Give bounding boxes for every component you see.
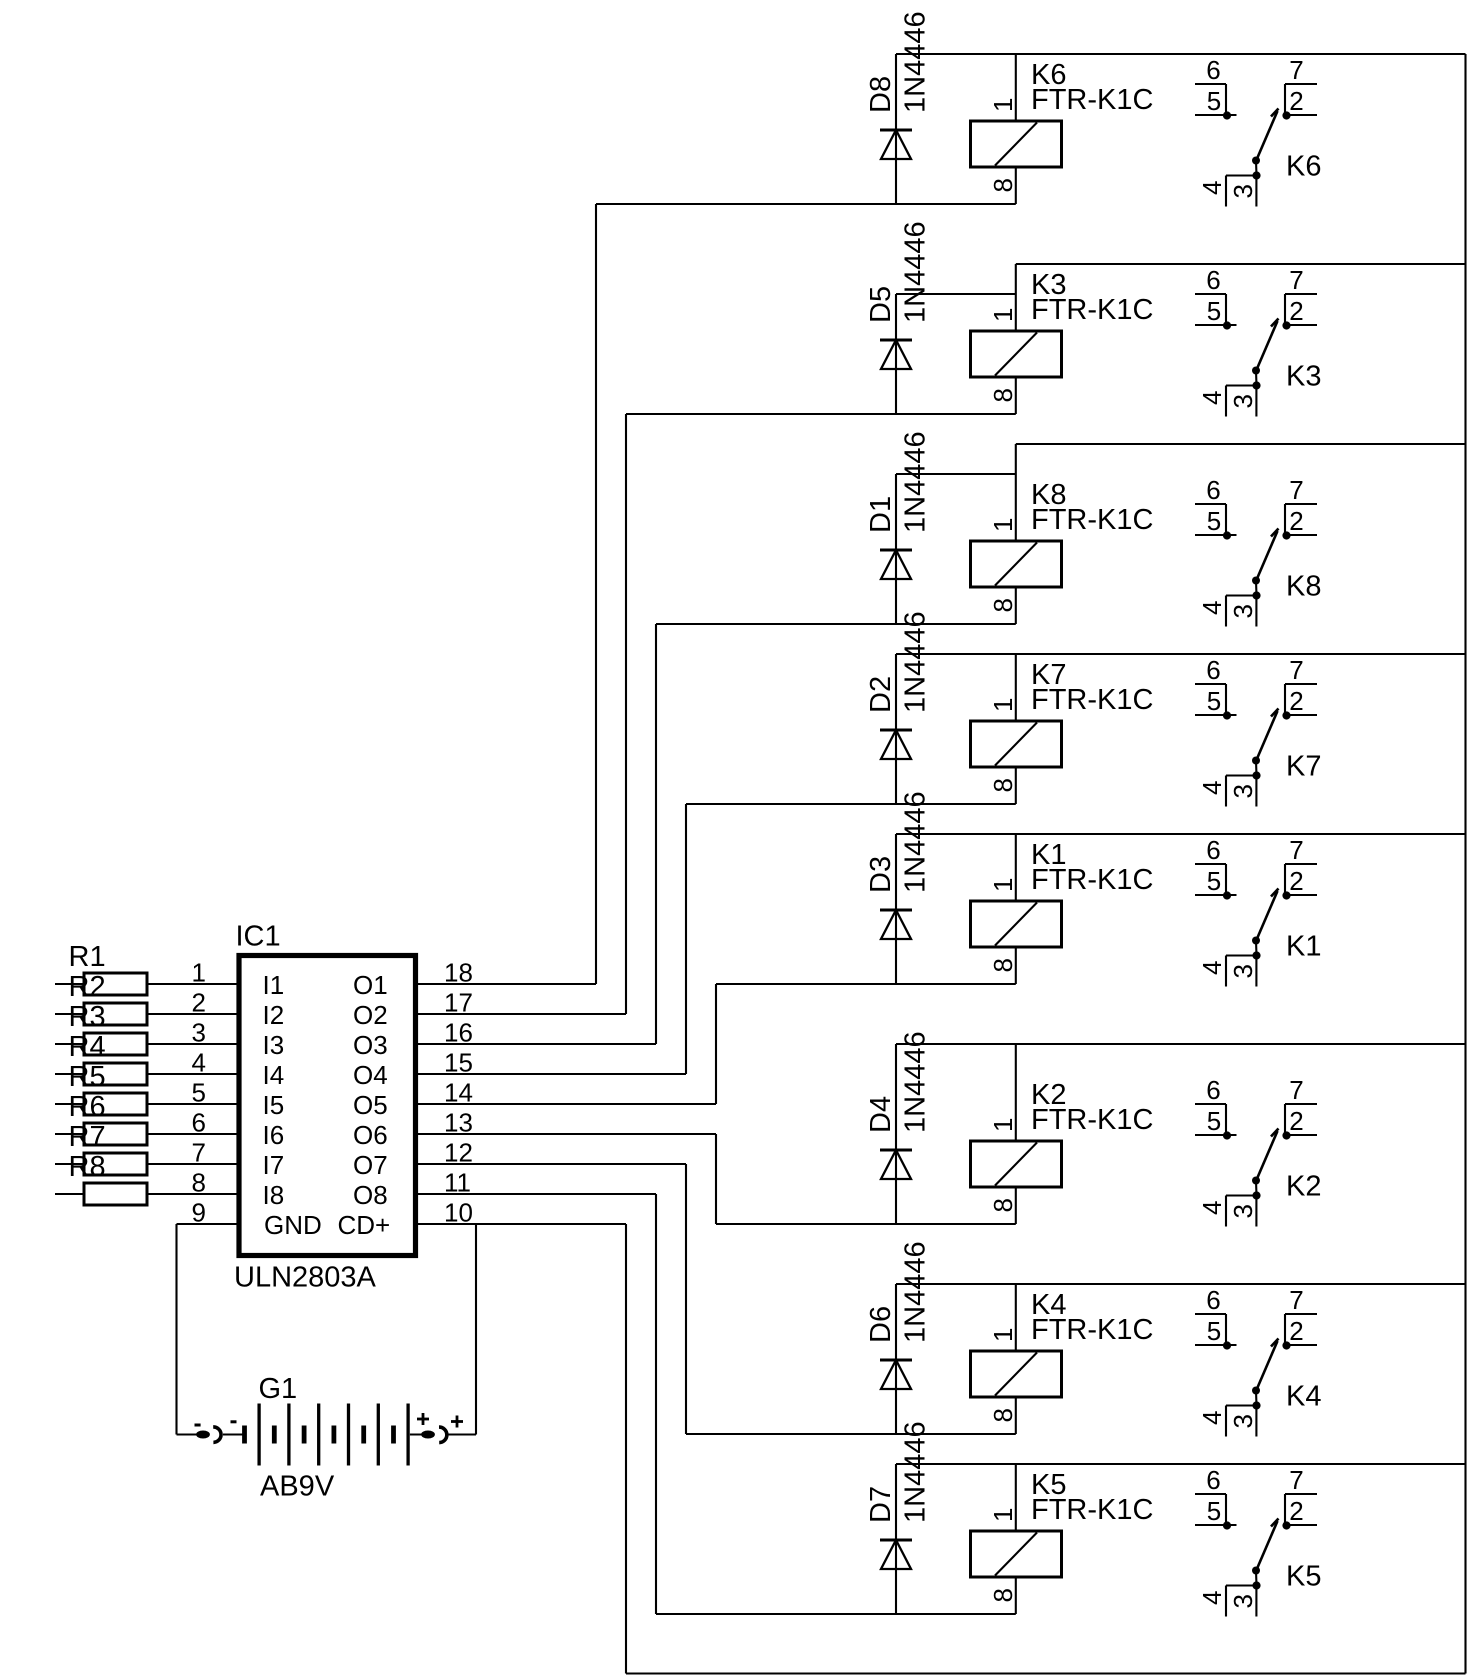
svg-text:4: 4 (1197, 781, 1227, 795)
svg-text:6: 6 (1206, 475, 1220, 505)
svg-text:8: 8 (988, 388, 1018, 402)
svg-text:O8: O8 (353, 1180, 388, 1210)
svg-text:2: 2 (1289, 686, 1303, 716)
svg-text:6: 6 (1206, 1075, 1220, 1105)
svg-text:8: 8 (988, 778, 1018, 792)
svg-text:D1: D1 (865, 496, 897, 533)
svg-text:R6: R6 (69, 1091, 106, 1123)
svg-text:7: 7 (1289, 55, 1303, 85)
svg-text:I2: I2 (263, 1000, 285, 1030)
svg-text:5: 5 (1207, 1316, 1221, 1346)
svg-text:1N4446: 1N4446 (900, 791, 932, 893)
svg-text:13: 13 (444, 1108, 473, 1138)
svg-text:O6: O6 (353, 1120, 388, 1150)
svg-text:FTR-K1C: FTR-K1C (1031, 1104, 1153, 1136)
svg-text:K4: K4 (1286, 1381, 1321, 1413)
svg-text:D5: D5 (865, 286, 897, 323)
svg-text:GND: GND (264, 1210, 322, 1240)
svg-text:1: 1 (988, 518, 1018, 532)
svg-text:8: 8 (988, 958, 1018, 972)
svg-text:4: 4 (1197, 1201, 1227, 1215)
svg-text:6: 6 (1206, 655, 1220, 685)
svg-text:ULN2803A: ULN2803A (234, 1262, 377, 1294)
svg-text:CD+: CD+ (338, 1210, 391, 1240)
svg-text:7: 7 (1289, 475, 1303, 505)
svg-text:5: 5 (1207, 866, 1221, 896)
svg-text:1: 1 (988, 98, 1018, 112)
svg-text:7: 7 (1289, 1075, 1303, 1105)
svg-text:2: 2 (1289, 1496, 1303, 1526)
svg-text:1: 1 (988, 878, 1018, 892)
svg-text:I4: I4 (263, 1060, 285, 1090)
svg-text:D2: D2 (865, 676, 897, 713)
svg-text:7: 7 (1289, 1465, 1303, 1495)
svg-text:4: 4 (1197, 601, 1227, 615)
svg-text:4: 4 (192, 1048, 206, 1078)
svg-text:3: 3 (1228, 784, 1258, 798)
svg-text:1N4446: 1N4446 (900, 611, 932, 713)
svg-text:3: 3 (1228, 1204, 1258, 1218)
svg-text:FTR-K1C: FTR-K1C (1031, 864, 1153, 896)
svg-text:3: 3 (1228, 604, 1258, 618)
svg-text:7: 7 (1289, 655, 1303, 685)
svg-text:6: 6 (1206, 1285, 1220, 1315)
svg-text:G1: G1 (259, 1373, 298, 1405)
svg-text:R2: R2 (69, 971, 106, 1003)
svg-text:O2: O2 (353, 1000, 388, 1030)
svg-text:FTR-K1C: FTR-K1C (1031, 684, 1153, 716)
svg-text:R8: R8 (69, 1151, 106, 1183)
svg-text:1: 1 (988, 308, 1018, 322)
svg-text:4: 4 (1197, 391, 1227, 405)
svg-text:K8: K8 (1286, 571, 1321, 603)
svg-text:1N4446: 1N4446 (900, 1031, 932, 1133)
svg-text:15: 15 (444, 1048, 473, 1078)
svg-text:5: 5 (1207, 1496, 1221, 1526)
svg-text:11: 11 (444, 1168, 471, 1198)
svg-text:IC1: IC1 (236, 921, 281, 953)
svg-text:2: 2 (1289, 866, 1303, 896)
svg-text:2: 2 (192, 988, 206, 1018)
svg-text:1: 1 (192, 958, 206, 988)
svg-text:16: 16 (444, 1018, 473, 1048)
svg-text:6: 6 (192, 1108, 206, 1138)
svg-text:I5: I5 (263, 1090, 285, 1120)
svg-text:18: 18 (444, 958, 473, 988)
svg-text:6: 6 (1206, 1465, 1220, 1495)
svg-text:1: 1 (988, 1118, 1018, 1132)
svg-text:K7: K7 (1286, 751, 1321, 783)
svg-text:O7: O7 (353, 1150, 388, 1180)
svg-text:D4: D4 (865, 1096, 897, 1133)
svg-text:O5: O5 (353, 1090, 388, 1120)
svg-text:8: 8 (192, 1168, 206, 1198)
svg-text:6: 6 (1206, 55, 1220, 85)
svg-text:8: 8 (988, 1408, 1018, 1422)
svg-text:8: 8 (988, 1588, 1018, 1602)
svg-text:5: 5 (1207, 506, 1221, 536)
svg-text:D8: D8 (865, 76, 897, 113)
svg-text:3: 3 (1228, 184, 1258, 198)
svg-text:K1: K1 (1286, 931, 1321, 963)
svg-text:1: 1 (988, 1508, 1018, 1522)
svg-text:7: 7 (1289, 265, 1303, 295)
svg-text:1: 1 (988, 698, 1018, 712)
svg-text:R5: R5 (69, 1061, 106, 1093)
svg-text:1N4446: 1N4446 (900, 431, 932, 533)
svg-text:1N4446: 1N4446 (900, 1421, 932, 1523)
svg-text:O4: O4 (353, 1060, 388, 1090)
svg-text:8: 8 (988, 178, 1018, 192)
svg-text:D3: D3 (865, 856, 897, 893)
svg-text:I7: I7 (263, 1150, 285, 1180)
svg-text:4: 4 (1197, 1591, 1227, 1605)
svg-text:R1: R1 (69, 941, 106, 973)
svg-text:I3: I3 (263, 1030, 285, 1060)
svg-text:I8: I8 (263, 1180, 285, 1210)
svg-text:FTR-K1C: FTR-K1C (1031, 84, 1153, 116)
svg-text:4: 4 (1197, 961, 1227, 975)
svg-text:8: 8 (988, 598, 1018, 612)
svg-text:2: 2 (1289, 1316, 1303, 1346)
svg-text:5: 5 (1207, 86, 1221, 116)
svg-text:2: 2 (1289, 86, 1303, 116)
svg-text:FTR-K1C: FTR-K1C (1031, 294, 1153, 326)
svg-text:1: 1 (988, 1328, 1018, 1342)
svg-text:AB9V: AB9V (260, 1471, 335, 1503)
svg-text:3: 3 (1228, 394, 1258, 408)
svg-text:5: 5 (1207, 296, 1221, 326)
svg-text:1N4446: 1N4446 (900, 1241, 932, 1343)
svg-text:7: 7 (1289, 835, 1303, 865)
svg-text:3: 3 (1228, 1594, 1258, 1608)
svg-text:1N4446: 1N4446 (900, 11, 932, 113)
svg-text:10: 10 (444, 1198, 473, 1228)
svg-text:12: 12 (444, 1138, 473, 1168)
svg-text:2: 2 (1289, 506, 1303, 536)
svg-text:K5: K5 (1286, 1561, 1321, 1593)
svg-text:7: 7 (1289, 1285, 1303, 1315)
svg-text:1N4446: 1N4446 (900, 221, 932, 323)
svg-text:3: 3 (1228, 1414, 1258, 1428)
svg-text:D6: D6 (865, 1306, 897, 1343)
svg-text:R3: R3 (69, 1001, 106, 1033)
svg-text:2: 2 (1289, 296, 1303, 326)
svg-text:I6: I6 (263, 1120, 285, 1150)
svg-text:8: 8 (988, 1198, 1018, 1212)
svg-text:3: 3 (1228, 964, 1258, 978)
svg-text:6: 6 (1206, 265, 1220, 295)
svg-text:5: 5 (1207, 686, 1221, 716)
svg-text:FTR-K1C: FTR-K1C (1031, 504, 1153, 536)
svg-text:O3: O3 (353, 1030, 388, 1060)
svg-text:14: 14 (444, 1078, 473, 1108)
svg-text:4: 4 (1197, 1411, 1227, 1425)
svg-text:I1: I1 (263, 970, 285, 1000)
svg-text:K2: K2 (1286, 1171, 1321, 1203)
svg-text:FTR-K1C: FTR-K1C (1031, 1494, 1153, 1526)
svg-text:O1: O1 (353, 970, 388, 1000)
svg-text:R7: R7 (69, 1121, 106, 1153)
svg-text:R4: R4 (69, 1031, 106, 1063)
svg-text:7: 7 (192, 1138, 206, 1168)
svg-text:17: 17 (444, 988, 473, 1018)
svg-text:5: 5 (1207, 1106, 1221, 1136)
svg-text:K6: K6 (1286, 151, 1321, 183)
svg-text:K3: K3 (1286, 361, 1321, 393)
svg-text:D7: D7 (865, 1486, 897, 1523)
svg-text:5: 5 (192, 1078, 206, 1108)
svg-text:FTR-K1C: FTR-K1C (1031, 1314, 1153, 1346)
svg-text:4: 4 (1197, 181, 1227, 195)
svg-text:2: 2 (1289, 1106, 1303, 1136)
svg-text:6: 6 (1206, 835, 1220, 865)
svg-text:3: 3 (192, 1018, 206, 1048)
